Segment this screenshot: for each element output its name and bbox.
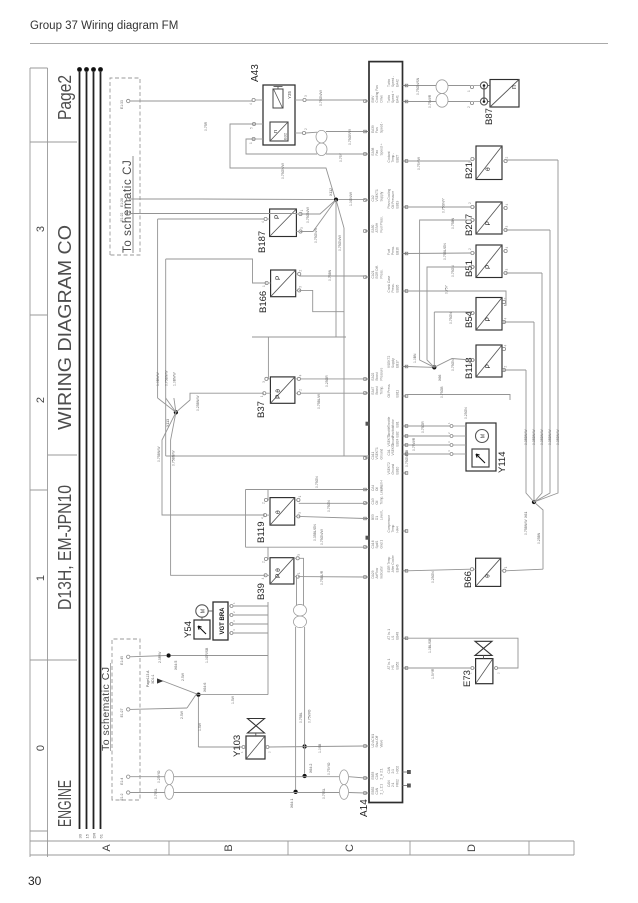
svg-text:Y35: Y35 xyxy=(287,90,292,99)
svg-text:0.75GN: 0.75GN xyxy=(327,500,331,512)
svg-text:E1:22: E1:22 xyxy=(120,213,124,222)
svg-text:ENGINE: ENGINE xyxy=(55,780,75,827)
svg-text:Y103: Y103 xyxy=(232,735,243,757)
svg-text:2: 2 xyxy=(35,397,47,403)
svg-text:Ground: Ground xyxy=(379,449,383,460)
svg-text:2: 2 xyxy=(467,106,471,108)
svg-text:1.0GN/W: 1.0GN/W xyxy=(349,191,353,206)
svg-text:1: 1 xyxy=(297,572,301,574)
svg-text:B32: B32 xyxy=(283,132,288,140)
svg-text:0.75BL: 0.75BL xyxy=(299,712,303,723)
svg-text:Oil Press.: Oil Press. xyxy=(387,384,391,398)
svg-text:2.5R/W: 2.5R/W xyxy=(158,651,162,663)
svg-text:EA42: EA42 xyxy=(395,79,399,87)
svg-text:EB17: EB17 xyxy=(395,360,399,368)
svg-text:15: 15 xyxy=(85,833,90,838)
svg-text:0: 0 xyxy=(35,745,47,751)
svg-text:2: 2 xyxy=(504,298,508,300)
svg-text:0.75W/R: 0.75W/R xyxy=(412,437,416,451)
svg-text:3: 3 xyxy=(505,226,509,228)
svg-text:XD1:1: XD1:1 xyxy=(151,674,155,684)
svg-text:0.75GN/W: 0.75GN/W xyxy=(306,206,310,223)
svg-text:4: 4 xyxy=(504,318,508,320)
svg-text:2: 2 xyxy=(262,502,266,504)
svg-text:B54: B54 xyxy=(464,311,475,328)
svg-text:Page2: Page2 xyxy=(55,75,75,120)
svg-text:EB16: EB16 xyxy=(395,247,399,255)
svg-text:EB19: EB19 xyxy=(395,200,399,208)
svg-text:0.75BL/GN: 0.75BL/GN xyxy=(443,243,447,260)
svg-text:2_H 2:1: 2_H 2:1 xyxy=(379,768,383,779)
svg-text:2: 2 xyxy=(298,389,302,391)
svg-text:B87: B87 xyxy=(484,108,495,125)
svg-text:Speed -: Speed - xyxy=(379,122,383,133)
svg-text:E1:28: E1:28 xyxy=(120,198,124,207)
svg-text:Drive: Drive xyxy=(379,95,383,103)
svg-text:0.75Y: 0.75Y xyxy=(339,152,343,162)
svg-text:P: P xyxy=(485,364,492,369)
svg-text:1: 1 xyxy=(504,566,508,568)
svg-text:3: 3 xyxy=(300,227,304,229)
svg-text:0.75SL: 0.75SL xyxy=(154,788,158,799)
svg-text:2: 2 xyxy=(268,751,272,753)
svg-text:B39: B39 xyxy=(256,583,267,600)
svg-text:Speed +: Speed + xyxy=(379,143,383,155)
svg-text:1.0GR/SB: 1.0GR/SB xyxy=(205,647,209,663)
svg-text:EB26: EB26 xyxy=(395,284,399,292)
svg-text:X64:1: X64:1 xyxy=(290,799,294,808)
svg-text:0.35BN/W: 0.35BN/W xyxy=(540,429,544,445)
svg-text:1: 1 xyxy=(447,422,451,424)
svg-text:X64:6: X64:6 xyxy=(203,683,207,692)
svg-text:X66: X66 xyxy=(438,375,442,381)
svg-text:0.75GN/SB: 0.75GN/SB xyxy=(405,449,409,467)
svg-text:1.0BN/W: 1.0BN/W xyxy=(173,372,177,386)
svg-text:A: A xyxy=(101,844,113,852)
svg-text:B187: B187 xyxy=(257,231,268,253)
svg-text:EB11: EB11 xyxy=(395,390,399,398)
svg-text:Indicator: Indicator xyxy=(379,565,383,578)
svg-text:0.75GN/Y: 0.75GN/Y xyxy=(442,197,446,213)
svg-text:1: 1 xyxy=(262,285,266,287)
svg-text:0.75BN: 0.75BN xyxy=(451,217,455,229)
svg-text:0.75BL/R: 0.75BL/R xyxy=(320,570,324,585)
svg-text:Temp.: Temp. xyxy=(379,386,383,395)
svg-text:0.75Y/W: 0.75Y/W xyxy=(417,156,421,170)
svg-text:EB1: EB1 xyxy=(395,421,399,427)
svg-text:0.75GN/W: 0.75GN/W xyxy=(320,528,324,545)
svg-text:0.75Y: 0.75Y xyxy=(445,284,449,294)
svg-text:4: 4 xyxy=(261,577,265,579)
svg-text:EB48: EB48 xyxy=(395,632,399,640)
svg-text:4: 4 xyxy=(447,450,451,452)
svg-text:4: 4 xyxy=(504,345,508,347)
svg-text:B207: B207 xyxy=(464,214,475,236)
svg-text:EB46: EB46 xyxy=(395,564,399,572)
svg-text:1: 1 xyxy=(240,751,244,753)
svg-text:5: 5 xyxy=(250,127,254,129)
svg-text:4: 4 xyxy=(261,221,265,223)
svg-text:Supply: Supply xyxy=(379,191,383,201)
svg-text:Pressure: Pressure xyxy=(379,368,383,381)
svg-text:2: 2 xyxy=(232,611,236,613)
svg-text:3: 3 xyxy=(297,554,301,556)
svg-text:2: 2 xyxy=(497,672,501,674)
svg-text:2: 2 xyxy=(447,432,451,434)
svg-text:Y114: Y114 xyxy=(497,452,508,473)
svg-text:4: 4 xyxy=(505,247,509,249)
svg-text:1: 1 xyxy=(468,269,472,271)
svg-text:2: 2 xyxy=(468,202,472,204)
svg-text:4: 4 xyxy=(232,629,236,631)
svg-text:θ: θ xyxy=(485,574,492,578)
svg-text:Y54: Y54 xyxy=(183,621,194,638)
svg-text:X64:5: X64:5 xyxy=(174,661,178,670)
svg-text:DR: DR xyxy=(92,833,97,839)
svg-text:B21: B21 xyxy=(464,162,475,179)
svg-text:2_L 2:1: 2_L 2:1 xyxy=(379,784,383,795)
svg-text:0.75BN/W: 0.75BN/W xyxy=(164,370,168,386)
svg-text:θ: θ xyxy=(275,510,282,514)
svg-text:1: 1 xyxy=(260,395,264,397)
svg-text:2: 2 xyxy=(468,248,472,250)
svg-text:EB52: EB52 xyxy=(395,661,399,669)
svg-text:0.75GN/W: 0.75GN/W xyxy=(319,89,323,106)
svg-text:0.75R: 0.75R xyxy=(204,121,208,131)
svg-text:0.75GR/W: 0.75GR/W xyxy=(348,128,352,145)
svg-text:0.75GN: 0.75GN xyxy=(315,476,319,488)
svg-text:VSEKT1: VSEKT1 xyxy=(391,443,395,455)
svg-text:M: M xyxy=(481,434,487,438)
svg-text:0.75GN: 0.75GN xyxy=(451,359,455,371)
svg-text:1.0BN: 1.0BN xyxy=(413,353,417,363)
svg-text:Page113 A: Page113 A xyxy=(146,670,150,687)
svg-text:E1:33: E1:33 xyxy=(120,100,124,109)
svg-text:0.35BN/W: 0.35BN/W xyxy=(524,429,528,445)
svg-text:E1:27: E1:27 xyxy=(120,708,124,717)
svg-text:EB24: EB24 xyxy=(395,438,399,446)
svg-text:EB27: EB27 xyxy=(395,154,399,162)
svg-text:2: 2 xyxy=(304,128,308,130)
svg-text:1: 1 xyxy=(35,575,47,581)
svg-text:1.5W: 1.5W xyxy=(198,722,202,731)
svg-text:P: P xyxy=(485,317,492,322)
svg-text:P: P xyxy=(485,264,492,269)
svg-text:3: 3 xyxy=(447,441,451,443)
svg-text:H302: H302 xyxy=(395,766,399,774)
svg-text:FR02: FR02 xyxy=(395,779,399,787)
svg-text:1.5Y/R: 1.5Y/R xyxy=(431,668,435,679)
svg-text:0.25GR: 0.25GR xyxy=(325,375,329,387)
svg-text:0.75BL/W: 0.75BL/W xyxy=(317,393,321,409)
svg-text:3: 3 xyxy=(505,269,509,271)
svg-text:0.75BN/W: 0.75BN/W xyxy=(172,450,176,466)
svg-text:E1:2: E1:2 xyxy=(120,793,124,800)
svg-text:HA4: HA4 xyxy=(395,526,399,532)
svg-text:0.75GN/W: 0.75GN/W xyxy=(338,234,342,251)
svg-text:3: 3 xyxy=(35,226,47,232)
svg-text:P: P xyxy=(275,275,282,280)
svg-text:A14: A14 xyxy=(359,799,370,817)
svg-text:n: n xyxy=(511,85,518,89)
svg-text:0.25Y/O: 0.25Y/O xyxy=(157,770,161,783)
svg-text:0.75W/O: 0.75W/O xyxy=(307,709,311,723)
svg-text:3: 3 xyxy=(298,512,302,514)
svg-text:0.25BN: 0.25BN xyxy=(537,532,541,544)
svg-text:2.5W: 2.5W xyxy=(180,710,184,719)
svg-text:P θ: P θ xyxy=(275,389,282,399)
svg-text:0.75GN: 0.75GN xyxy=(451,265,455,277)
svg-text:P θ: P θ xyxy=(275,568,282,578)
svg-text:0.75BN/W: 0.75BN/W xyxy=(524,519,528,535)
svg-text:0.75BN/W: 0.75BN/W xyxy=(157,446,161,462)
svg-text:0.75GR: 0.75GR xyxy=(421,421,425,433)
svg-text:X64:2: X64:2 xyxy=(309,764,313,773)
svg-text:2: 2 xyxy=(468,571,472,573)
svg-text:Level L: Level L xyxy=(379,509,383,520)
svg-text:Fuel Press.: Fuel Press. xyxy=(379,216,383,232)
svg-text:P: P xyxy=(274,214,281,219)
svg-text:1.0BL/SB: 1.0BL/SB xyxy=(428,638,432,653)
svg-text:C: C xyxy=(344,844,356,852)
svg-text:30: 30 xyxy=(78,833,83,838)
svg-text:D13H, EM-JPN10: D13H, EM-JPN10 xyxy=(55,485,75,610)
svg-text:3: 3 xyxy=(232,620,236,622)
svg-text:1: 1 xyxy=(468,222,472,224)
svg-text:1: 1 xyxy=(298,496,302,498)
svg-text:0.75W/R: 0.75W/R xyxy=(428,94,432,108)
svg-text:1: 1 xyxy=(468,315,472,317)
svg-text:Valve: Valve xyxy=(379,740,383,748)
svg-text:0.75GN/SN: 0.75GN/SN xyxy=(416,77,420,95)
svg-text:0.35BN/W: 0.35BN/W xyxy=(556,429,560,445)
svg-text:n: n xyxy=(273,130,279,133)
svg-text:B119: B119 xyxy=(256,522,267,543)
svg-text:1.5W: 1.5W xyxy=(231,695,235,704)
svg-text:3: 3 xyxy=(304,95,308,97)
svg-text:EA41: EA41 xyxy=(395,95,399,103)
svg-text:1: 1 xyxy=(300,210,304,212)
svg-text:D: D xyxy=(466,844,478,852)
svg-text:X61: X61 xyxy=(524,512,528,518)
svg-text:1: 1 xyxy=(468,362,472,364)
svg-text:2: 2 xyxy=(299,270,303,272)
svg-text:0.35BN/W: 0.35BN/W xyxy=(532,429,536,445)
svg-text:4: 4 xyxy=(261,517,265,519)
svg-text:1: 1 xyxy=(467,90,471,92)
svg-text:0.25GN: 0.25GN xyxy=(431,571,435,583)
svg-text:0.75GB: 0.75GB xyxy=(440,386,444,398)
svg-text:61: 61 xyxy=(99,833,104,838)
svg-text:1: 1 xyxy=(232,602,236,604)
svg-text:Press.: Press. xyxy=(379,269,383,278)
svg-text:EB2: EB2 xyxy=(395,431,399,437)
svg-text:B37: B37 xyxy=(256,401,267,418)
svg-text:0.75GN: 0.75GN xyxy=(449,312,453,324)
svg-text:0.35BN/W: 0.35BN/W xyxy=(548,429,552,445)
svg-text:E1:4: E1:4 xyxy=(120,778,124,785)
svg-text:B: B xyxy=(223,844,235,851)
svg-text:Gnd 1: Gnd 1 xyxy=(379,540,383,549)
svg-text:0.35BL/GN: 0.35BL/GN xyxy=(313,524,317,541)
svg-text:0.75SL: 0.75SL xyxy=(322,788,326,799)
svg-text:0.25BN/W: 0.25BN/W xyxy=(196,395,200,411)
svg-text:0.75GN/S: 0.75GN/S xyxy=(314,227,318,243)
svg-text:EB10: EB10 xyxy=(395,466,399,474)
svg-text:1.0SB: 1.0SB xyxy=(318,743,322,753)
svg-text:WIRING DIAGRAM CO: WIRING DIAGRAM CO xyxy=(55,225,75,430)
svg-text:1: 1 xyxy=(469,672,473,674)
svg-text:2: 2 xyxy=(505,157,509,159)
svg-text:0.75GN/W: 0.75GN/W xyxy=(281,162,285,179)
svg-text:1.0BN/W: 1.0BN/W xyxy=(156,372,160,386)
svg-text:0.25GN: 0.25GN xyxy=(464,407,468,419)
svg-text:VGT BRA: VGT BRA xyxy=(220,607,226,635)
svg-text:M: M xyxy=(201,609,207,613)
svg-text:B66: B66 xyxy=(463,571,474,588)
svg-text:2: 2 xyxy=(504,366,508,368)
svg-text:4: 4 xyxy=(505,204,509,206)
svg-text:2.5W: 2.5W xyxy=(181,672,185,681)
svg-text:3: 3 xyxy=(299,286,303,288)
svg-text:3: 3 xyxy=(262,381,266,383)
svg-text:θ: θ xyxy=(485,167,492,171)
svg-text:1: 1 xyxy=(249,142,253,144)
svg-text:4: 4 xyxy=(249,103,253,105)
svg-text:Temp. Level L: Temp. Level L xyxy=(379,484,383,504)
svg-text:0.75BN: 0.75BN xyxy=(328,269,332,281)
svg-text:B166: B166 xyxy=(258,291,269,313)
svg-text:P: P xyxy=(485,221,492,226)
svg-text:A43: A43 xyxy=(250,64,261,82)
svg-text:0.75Y/O: 0.75Y/O xyxy=(327,762,331,775)
svg-text:4: 4 xyxy=(298,374,302,376)
svg-text:2: 2 xyxy=(262,561,266,563)
svg-text:E1:45: E1:45 xyxy=(120,656,124,665)
